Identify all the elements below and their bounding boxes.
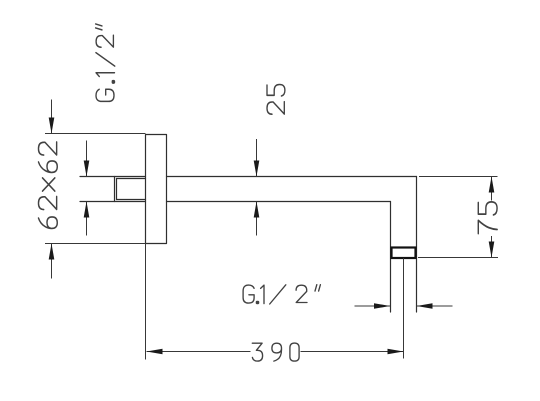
dim 62x62: bottom extension line xyxy=(45,243,146,245)
arrowhead outlet right (left) xyxy=(417,303,433,309)
arrowhead 390 right (right) xyxy=(388,349,404,355)
dim G1/2 outlet: left arrow line xyxy=(355,305,391,307)
dim 62x62: bottom arrow line xyxy=(51,244,53,279)
label G.1/2" horizontal (outlet) xyxy=(243,285,320,304)
arrowhead 25 bottom (up) xyxy=(254,202,260,218)
arrowhead outlet left (right) xyxy=(374,303,390,309)
label 75 vertical xyxy=(478,202,497,234)
dim 62x62: top extension line xyxy=(45,133,146,135)
dim G1/2 outlet: right arrow line xyxy=(417,305,453,307)
tube top line xyxy=(167,176,417,178)
dim 25: bottom arrow line xyxy=(256,202,258,236)
tube right outer vertical xyxy=(416,177,418,313)
arrowhead 75 bottom (down) xyxy=(489,242,495,258)
arrowhead 390 left (left) xyxy=(147,349,163,355)
label 390 horizontal xyxy=(252,343,299,361)
dim G1/2 left: bottom arrow line xyxy=(86,202,88,236)
dim 75: top extension line xyxy=(419,176,498,178)
arrowhead 62x62 top (down) xyxy=(49,118,55,134)
arrowhead 25 top (down) xyxy=(254,161,260,177)
arrowhead G1/2 left bottom (up) xyxy=(84,202,90,218)
dim 75: dimension line lower segment xyxy=(491,236,493,258)
arrowhead G1/2 left top (down) xyxy=(84,161,90,177)
wall fitting G1/2 outer (left of flange) with extension lines xyxy=(80,176,146,178)
dim 75: bottom extension line xyxy=(418,257,498,259)
dim 390: dimension line left segment xyxy=(147,351,251,353)
outlet collar (bold) xyxy=(392,248,416,259)
arrowhead 75 top (up) xyxy=(489,177,495,193)
wall fitting thread inner lines xyxy=(117,178,146,180)
dim 390: right extension line (outlet axis) xyxy=(403,258,405,359)
label G.1/2" vertical (top left) xyxy=(96,24,115,101)
label 62x62 vertical xyxy=(38,142,57,229)
dim 75: dimension line upper segment xyxy=(491,177,493,201)
dim G1/2 left: top arrow line xyxy=(86,141,88,177)
flange plate 62x62 (side view rectangle) xyxy=(146,135,167,244)
dim 25: top arrow line xyxy=(256,139,258,177)
label 25 vertical xyxy=(267,84,285,114)
dim 390: left extension line xyxy=(145,244,147,360)
dim 390: dimension line right segment xyxy=(301,351,404,353)
dim 62x62: top arrow line xyxy=(51,100,53,134)
arrowhead 62x62 bottom (up) xyxy=(49,244,55,260)
tube inner vertical (bend) xyxy=(390,202,392,313)
tube bottom line xyxy=(167,201,391,203)
